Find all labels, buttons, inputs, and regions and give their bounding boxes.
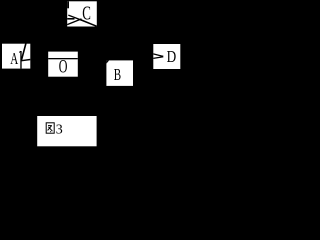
svg-text:A: A bbox=[10, 50, 18, 69]
svg-text:C: C bbox=[82, 2, 91, 25]
svg-text:B: B bbox=[114, 66, 121, 85]
svg-text:D: D bbox=[167, 48, 177, 67]
svg-text:O: O bbox=[59, 57, 68, 77]
svg-text:3: 3 bbox=[56, 122, 63, 137]
